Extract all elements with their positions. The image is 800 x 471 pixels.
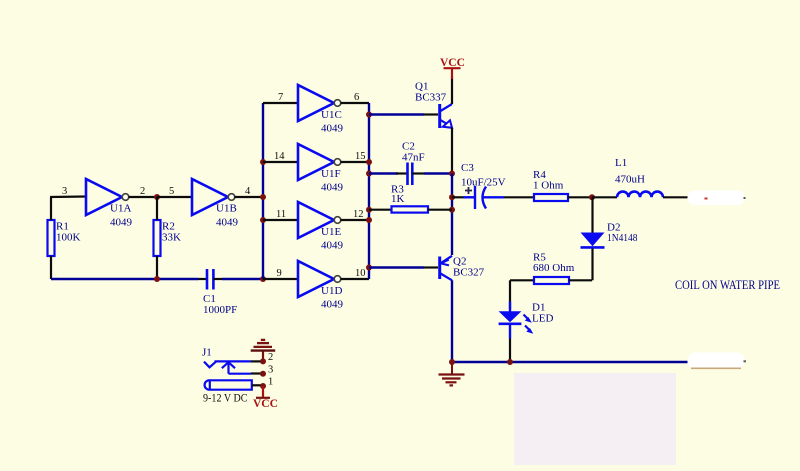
svg-text:12: 12 <box>353 209 364 220</box>
svg-text:3: 3 <box>268 365 273 376</box>
svg-text:U1C: U1C <box>321 109 342 121</box>
svg-text:BC337: BC337 <box>415 92 447 104</box>
node junction D1 cathode <box>507 359 513 365</box>
svg-text:4049: 4049 <box>321 240 344 252</box>
svg-text:LED: LED <box>532 313 553 325</box>
wire R1 top to U1A input <box>50 195 86 198</box>
svg-text:10uF/25V: 10uF/25V <box>461 177 506 189</box>
svg-text:L1: L1 <box>615 157 627 169</box>
node junction at R2 top <box>154 194 160 200</box>
svg-text:1: 1 <box>268 377 273 388</box>
svg-text:1 Ohm: 1 Ohm <box>533 180 564 192</box>
power VCC bottom <box>253 386 278 410</box>
node junction C2 wire <box>366 171 372 177</box>
node junction C3 tap <box>449 194 455 200</box>
node terminal white pill top <box>688 191 746 206</box>
svg-text:470uH: 470uH <box>615 174 645 186</box>
svg-text:J1: J1 <box>202 347 212 359</box>
resistor R5 <box>510 252 592 285</box>
wire C1 right to input bus <box>222 278 263 280</box>
node junction C1/pin9 <box>260 276 266 282</box>
wire C2 right to emitter node <box>424 172 452 174</box>
op-amp U1D (inverter 4049) <box>263 261 369 311</box>
node junction R3 right <box>449 207 455 213</box>
ground symbol J1 (inverted) <box>251 340 276 362</box>
op-amp U1F (inverter 4049) <box>263 144 369 194</box>
node junction Q1 emitter / C2 <box>449 171 455 177</box>
node junction R2 bottom <box>154 276 160 282</box>
node junction J1 pin3 <box>260 371 266 377</box>
svg-text:1N4148: 1N4148 <box>607 232 638 244</box>
svg-text:4049: 4049 <box>321 182 344 194</box>
svg-text:100K: 100K <box>56 232 81 244</box>
wire bottom feedback bus <box>51 278 199 280</box>
node junction U1B output <box>260 194 266 200</box>
diode D1 LED <box>499 302 554 363</box>
transistor Q2 BC327 <box>440 256 485 363</box>
svg-text:4049: 4049 <box>110 217 133 229</box>
svg-text:9: 9 <box>277 268 282 279</box>
svg-text:VCC: VCC <box>253 398 278 410</box>
wire R5 left down to D1 <box>509 280 511 309</box>
svg-text:1K: 1K <box>391 193 405 205</box>
diode D2 1N4148 <box>581 197 638 280</box>
inductor L1 <box>615 157 663 197</box>
node terminal white pill bottom <box>688 353 747 369</box>
capacitor C3 (electrolytic) <box>452 162 534 209</box>
background patch bottom right <box>514 373 676 465</box>
op-amp U1E (inverter 4049) <box>263 202 369 252</box>
svg-text:15: 15 <box>355 151 366 162</box>
svg-text:6: 6 <box>354 92 359 103</box>
svg-text:U1D: U1D <box>321 285 342 297</box>
svg-text:BC327: BC327 <box>453 267 485 279</box>
svg-text:5: 5 <box>169 186 174 197</box>
connector J1 <box>202 347 273 390</box>
op-amp U1C (inverter 4049) <box>263 85 369 135</box>
transistor Q1 BC337 <box>415 77 452 174</box>
node junction pin12 <box>366 217 372 223</box>
svg-text:7: 7 <box>278 92 283 103</box>
node junction J1 pin1 <box>260 383 266 389</box>
svg-text:3: 3 <box>62 186 67 197</box>
ground symbol <box>439 362 465 385</box>
svg-text:4: 4 <box>245 186 251 197</box>
resistor R3 <box>369 184 452 213</box>
node junction J1 pin2 <box>260 358 266 364</box>
capacitor C1 <box>199 269 238 316</box>
svg-text:U1F: U1F <box>321 168 341 180</box>
svg-text:4049: 4049 <box>216 217 239 229</box>
node junction Q2 collector / ground <box>449 359 455 365</box>
capacitor C2 <box>396 141 425 186</box>
svg-text:14: 14 <box>274 151 285 162</box>
svg-text:2: 2 <box>140 186 145 197</box>
svg-text:U1A: U1A <box>110 203 131 215</box>
wire output bus vertical <box>368 103 370 279</box>
node junction R3 wire <box>366 207 372 213</box>
op-amp U1A (inverter 4049) <box>86 179 157 229</box>
svg-text:4049: 4049 <box>321 299 344 311</box>
svg-text:47nF: 47nF <box>402 152 425 164</box>
node junction D2 tap <box>589 194 595 200</box>
wire to Q1 base <box>369 113 424 115</box>
svg-text:4049: 4049 <box>321 123 344 135</box>
wire input bus vertical <box>262 103 264 279</box>
svg-text:680 Ohm: 680 Ohm <box>533 262 575 274</box>
svg-text:1000PF: 1000PF <box>203 304 237 316</box>
wire to Q2 base <box>369 266 424 268</box>
svg-text:C3: C3 <box>461 162 474 174</box>
svg-text:33K: 33K <box>162 232 181 244</box>
wire D2 node to L1 <box>592 196 617 198</box>
svg-text:11: 11 <box>276 209 286 220</box>
wire emitter node vertical <box>451 174 453 256</box>
svg-text:2: 2 <box>268 352 273 363</box>
svg-text:U1B: U1B <box>216 203 237 215</box>
node junction pin15 <box>366 159 372 165</box>
power VCC top <box>440 57 465 79</box>
node junction pin14 <box>260 159 266 165</box>
wire L1 to coil terminal <box>663 196 689 198</box>
resistor R1 <box>48 197 81 279</box>
svg-text:U1E: U1E <box>321 226 341 238</box>
resistor R2 <box>154 197 182 279</box>
wire to C2 <box>369 172 398 174</box>
wire ground bus <box>452 361 688 363</box>
node junction Q2 base wire <box>366 265 372 271</box>
wire U1A output to U1B input <box>157 196 192 198</box>
svg-text:9-12 V DC: 9-12 V DC <box>203 391 248 405</box>
resistor R4 <box>533 169 592 201</box>
svg-text:10: 10 <box>355 268 366 279</box>
node junction pin11 <box>260 217 266 223</box>
svg-text:COIL ON WATER PIPE: COIL ON WATER PIPE <box>675 277 780 292</box>
node junction Q1 base wire <box>366 112 372 118</box>
op-amp U1B (inverter 4049) <box>192 179 263 229</box>
